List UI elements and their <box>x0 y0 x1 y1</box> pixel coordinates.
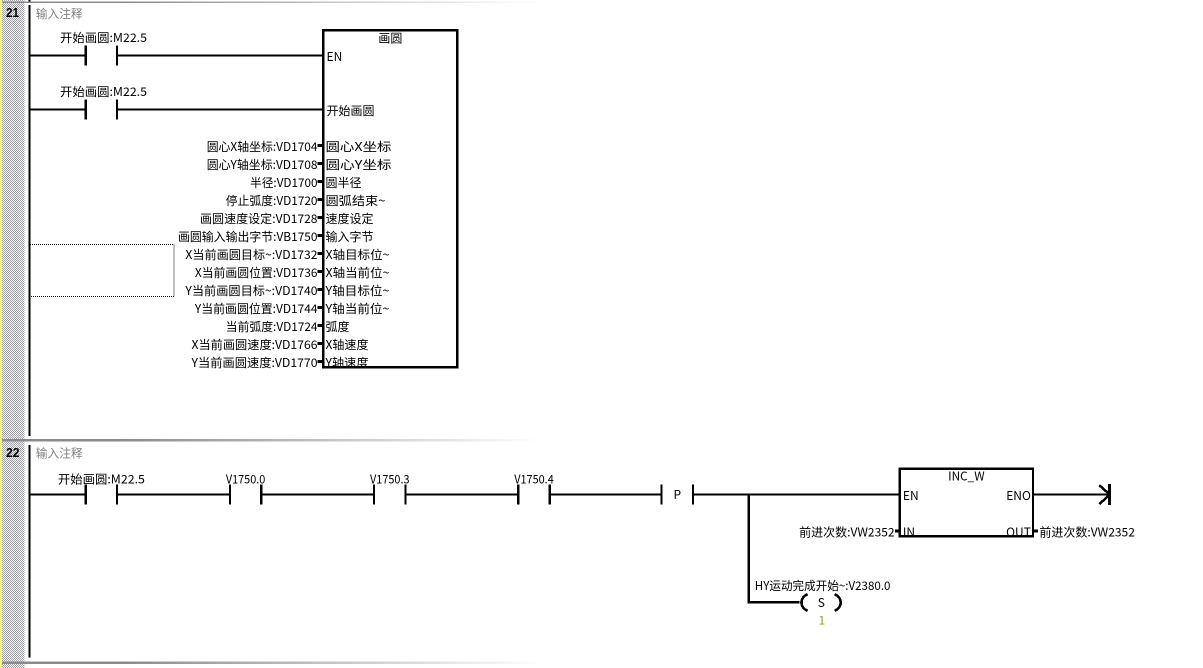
svg-text:圆心Y坐标: 圆心Y坐标 <box>326 156 392 173</box>
svg-text:22: 22 <box>6 446 20 460</box>
svg-text:Y轴速度: Y轴速度 <box>324 354 368 371</box>
svg-text:前进次数:VW2352: 前进次数:VW2352 <box>799 524 895 541</box>
contact P (positive edge) <box>660 485 694 505</box>
svg-text:X轴速度: X轴速度 <box>326 336 369 353</box>
svg-text:1: 1 <box>818 612 825 629</box>
wire rail to contact rung2 <box>28 108 85 110</box>
svg-text:21: 21 <box>6 6 19 20</box>
continuation arrow <box>1099 484 1109 505</box>
svg-text:开始画圆:M22.5: 开始画圆:M22.5 <box>60 29 147 46</box>
svg-text:圆半径: 圆半径 <box>326 174 362 191</box>
svg-text:X当前画圆速度:VD1766: X当前画圆速度:VD1766 <box>192 336 318 353</box>
branch wire down <box>748 493 750 602</box>
svg-text:P: P <box>673 486 681 503</box>
branch wire to coil <box>748 601 800 603</box>
svg-text:开始画圆:M22.5: 开始画圆:M22.5 <box>58 471 145 488</box>
svg-text:停止弧度:VD1720: 停止弧度:VD1720 <box>226 192 318 209</box>
wire to contact V1750.4 <box>406 493 519 495</box>
svg-text:圆心X轴坐标:VD1704: 圆心X轴坐标:VD1704 <box>207 138 318 155</box>
wire contact to block EN <box>117 54 323 56</box>
svg-text:输入注释: 输入注释 <box>36 5 83 22</box>
svg-text:画圆速度设定:VD1728: 画圆速度设定:VD1728 <box>200 210 318 227</box>
svg-text:HY运动完成开始~:V2380.0: HY运动完成开始~:V2380.0 <box>755 577 891 594</box>
function block 画圆 <box>323 30 457 367</box>
svg-text:画圆: 画圆 <box>378 30 402 47</box>
svg-text:Y轴目标位~: Y轴目标位~ <box>324 282 389 299</box>
svg-text:S: S <box>818 594 825 611</box>
svg-text:圆弧结束~: 圆弧结束~ <box>326 192 386 209</box>
wire to contact 开始画圆:M22.5 <box>28 493 85 495</box>
svg-text:X当前画圆目标~:VD1732: X当前画圆目标~:VD1732 <box>185 246 317 263</box>
svg-text:Y当前画圆速度:VD1770: Y当前画圆速度:VD1770 <box>190 354 317 371</box>
svg-text:X轴目标位~: X轴目标位~ <box>326 246 390 263</box>
svg-text:EN: EN <box>327 48 343 65</box>
svg-text:输入注释: 输入注释 <box>36 444 83 461</box>
svg-text:前进次数:VW2352: 前进次数:VW2352 <box>1039 524 1135 541</box>
svg-text:INC_W: INC_W <box>948 468 985 485</box>
svg-text:圆心Y轴坐标:VD1708: 圆心Y轴坐标:VD1708 <box>207 156 318 173</box>
contact 开始画圆:M22.5 (rung 1) <box>85 46 119 66</box>
svg-text:速度设定: 速度设定 <box>326 210 374 227</box>
svg-text:圆心X坐标: 圆心X坐标 <box>326 138 392 155</box>
network number margin (dither) <box>2 0 25 668</box>
svg-text:OUT: OUT <box>1006 524 1031 541</box>
contact 开始画圆:M22.5 <box>85 485 119 505</box>
network 21 left power rail <box>28 5 30 436</box>
coil S (set) <box>801 594 840 611</box>
function block INC_W <box>900 469 1033 537</box>
svg-text:当前弧度:VD1724: 当前弧度:VD1724 <box>226 318 318 335</box>
svg-text:Y当前画圆目标~:VD1740: Y当前画圆目标~:VD1740 <box>184 282 317 299</box>
network separator bottom <box>2 662 1203 665</box>
svg-text:ENO: ENO <box>1006 487 1031 504</box>
wire to contact V1750.3 <box>261 493 374 495</box>
network 22 left power rail <box>28 445 30 657</box>
svg-text:V1750.3: V1750.3 <box>370 471 410 488</box>
svg-text:Y轴当前位~: Y轴当前位~ <box>324 300 389 317</box>
network separator top <box>2 1 1203 3</box>
contact V1750.0 <box>229 485 263 505</box>
contact V1750.4 <box>517 485 551 505</box>
svg-text:半径:VD1700: 半径:VD1700 <box>250 174 318 191</box>
wire ENO to continuation arrow <box>1033 493 1108 495</box>
wire P contact to INC_W block <box>693 493 900 495</box>
contact V1750.3 <box>373 485 407 505</box>
svg-text:X当前画圆位置:VD1736: X当前画圆位置:VD1736 <box>195 264 318 281</box>
rail stub of previous network <box>28 0 30 1</box>
POU yellow margin strip <box>0 0 2 668</box>
contact 开始画圆:M22.5 (rung 2) <box>85 100 119 120</box>
svg-text:EN: EN <box>903 487 919 504</box>
svg-text:输入字节: 输入字节 <box>326 228 374 245</box>
svg-text:V1750.4: V1750.4 <box>514 471 554 488</box>
wire rail to contact rung1 <box>28 54 85 56</box>
svg-text:画圆输入输出字节:VB1750: 画圆输入输出字节:VB1750 <box>178 228 318 245</box>
svg-text:开始画圆: 开始画圆 <box>327 102 375 119</box>
wire contact to block 开始画圆 input <box>117 108 323 110</box>
svg-text:Y当前画圆位置:VD1744: Y当前画圆位置:VD1744 <box>194 300 318 317</box>
wire to contact V1750.0 <box>117 493 230 495</box>
svg-text:IN: IN <box>903 524 915 541</box>
svg-text:X轴当前位~: X轴当前位~ <box>326 264 390 281</box>
svg-text:开始画圆:M22.5: 开始画圆:M22.5 <box>60 83 147 100</box>
selection box (dotted) <box>30 244 174 296</box>
svg-text:弧度: 弧度 <box>326 318 350 335</box>
network separator mid <box>2 439 1203 442</box>
wire to P contact <box>550 493 662 495</box>
svg-text:V1750.0: V1750.0 <box>226 471 266 488</box>
